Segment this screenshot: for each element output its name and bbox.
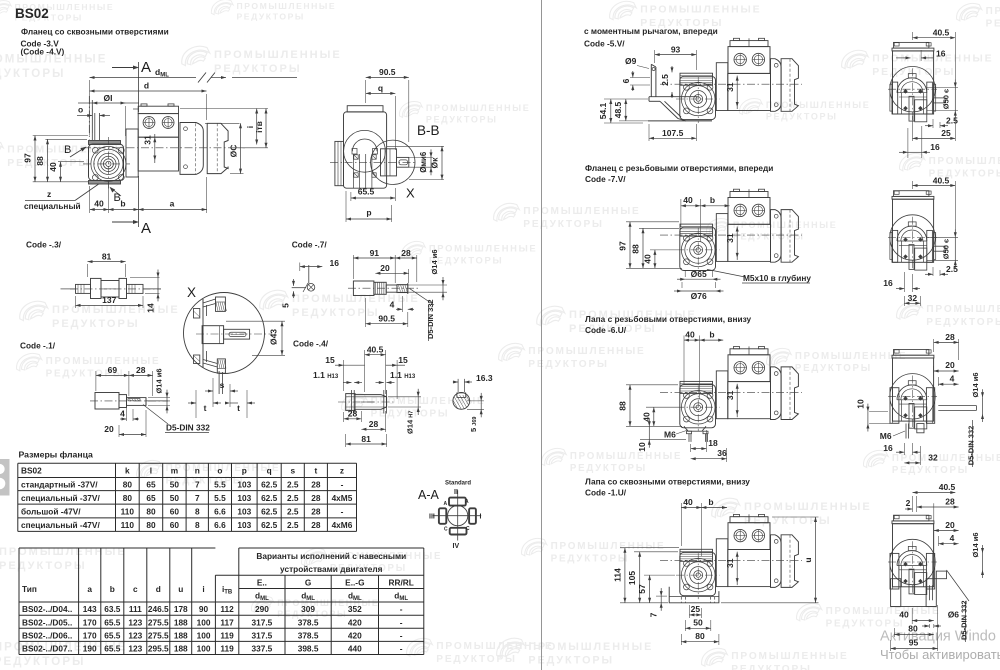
dim 28 upper	[343, 412, 345, 422]
gearbox adapter	[716, 539, 728, 587]
svg-text:ПРОМЫШЛЕННЫЕ: ПРОМЫШЛЕННЫЕ	[744, 501, 872, 513]
svg-text:ПРОМЫШЛЕННЫЕ: ПРОМЫШЛЕННЫЕ	[570, 451, 682, 462]
svg-text:97: 97	[23, 153, 33, 163]
output shaft down	[917, 424, 924, 433]
gearbox ribs	[680, 381, 713, 393]
centerline	[660, 559, 802, 561]
left edge tab B	[0, 459, 10, 496]
svg-text:5.5: 5.5	[214, 493, 226, 503]
section bolts	[903, 562, 908, 567]
svg-text:(Code -4.V): (Code -4.V)	[21, 47, 65, 57]
dim 28	[416, 255, 418, 282]
svg-text:28: 28	[348, 409, 358, 419]
svg-text:20: 20	[104, 424, 114, 434]
gearbox ribs	[680, 73, 713, 85]
end view Code -6.U	[888, 350, 937, 430]
svg-text:ПРОМЫШЛЕННЫЕ: ПРОМЫШЛЕННЫЕ	[277, 598, 379, 608]
svg-text:ПРОМЫШЛЕННЫЕ: ПРОМЫШЛЕННЫЕ	[733, 220, 838, 230]
svg-text:10: 10	[855, 399, 865, 409]
main drawing Code -3.V: worm gearbox with motor, side view	[23, 59, 298, 237]
dims 97 88 40	[33, 135, 88, 137]
svg-text:E..: E..	[257, 577, 267, 587]
svg-text:105: 105	[627, 571, 637, 585]
svg-text:Ø50 є: Ø50 є	[942, 89, 951, 109]
dim 28 lower	[385, 411, 387, 432]
svg-text:РЕДУКТОРЫ: РЕДУКТОРЫ	[926, 317, 1000, 328]
dim 10 left	[869, 423, 890, 425]
svg-text:РЕДУКТОРЫ: РЕДУКТОРЫ	[0, 656, 86, 668]
svg-text:40: 40	[899, 610, 909, 620]
svg-text:40: 40	[94, 199, 104, 209]
svg-text:II: II	[454, 489, 458, 496]
svg-text:65.5: 65.5	[104, 617, 121, 627]
svg-text:69: 69	[108, 365, 118, 375]
svg-text:ØI: ØI	[104, 93, 113, 103]
svg-text:178: 178	[174, 604, 188, 614]
svg-text:A: A	[141, 220, 151, 237]
svg-text:4xM6: 4xM6	[332, 520, 353, 530]
svg-text:20: 20	[380, 263, 390, 273]
motor end shield	[771, 210, 782, 263]
svg-text:Ø50 є: Ø50 є	[942, 239, 951, 259]
drawing Code -.7: shaft end with retaining washer	[281, 248, 448, 341]
svg-text:o: o	[78, 105, 83, 115]
svg-text:s: s	[220, 380, 225, 390]
dim 28 top	[933, 339, 935, 352]
svg-text:M6: M6	[880, 431, 892, 441]
shaft key stub right	[934, 98, 946, 103]
motor body	[126, 129, 138, 177]
svg-text:РЕДУКТОРЫ: РЕДУКТОРЫ	[733, 232, 805, 242]
svg-text:28: 28	[945, 497, 955, 507]
detail X: output flange cross-section	[184, 285, 286, 418]
svg-text:RR/RL: RR/RL	[388, 577, 413, 587]
svg-text:112: 112	[220, 604, 234, 614]
svg-text:p: p	[242, 466, 247, 476]
svg-text:ПРОМЫШЛЕННЫЕ: ПРОМЫШЛЕННЫЕ	[166, 463, 281, 474]
motor end shield	[771, 367, 782, 420]
end view: terminal box	[894, 515, 929, 521]
dim 54.1	[604, 98, 648, 100]
end view Code -1.U	[888, 515, 947, 595]
svg-text:90.5: 90.5	[378, 314, 395, 324]
svg-text:60: 60	[170, 520, 180, 530]
fan cowl	[781, 59, 798, 112]
svg-text:ПРОМЫШЛЕННЫЕ: ПРОМЫШЛЕННЫЕ	[292, 293, 420, 305]
svg-text:16: 16	[930, 142, 940, 152]
svg-text:C: C	[444, 527, 448, 533]
dim 2.5	[932, 267, 934, 276]
svg-text:275.5: 275.5	[148, 631, 169, 641]
svg-text:352: 352	[348, 604, 362, 614]
end view Code -5.V	[888, 42, 945, 122]
dim 40.5	[912, 32, 914, 40]
output flange and shaft	[381, 149, 397, 176]
svg-text:25: 25	[691, 604, 701, 614]
dims 40 b a	[89, 186, 91, 213]
gearbox housing front	[680, 76, 716, 119]
svg-text:40.5: 40.5	[933, 28, 950, 38]
svg-text:40: 40	[642, 254, 652, 264]
dim 16	[903, 272, 905, 292]
shaft key stub right	[934, 246, 946, 251]
svg-text:специальный -37V/: специальный -37V/	[21, 493, 100, 503]
svg-text:b: b	[709, 330, 714, 340]
svg-text:103: 103	[237, 493, 251, 503]
svg-text:РЕДУКТОРЫ: РЕДУКТОРЫ	[292, 307, 380, 319]
motor body	[728, 382, 771, 419]
svg-text:80: 80	[123, 493, 133, 503]
svg-text:c: c	[133, 584, 138, 594]
svg-text:BS02-../D07..: BS02-../D07..	[22, 644, 72, 654]
svg-text:BS02: BS02	[15, 6, 49, 21]
svg-text:ПРОМЫШЛЕННЫЕ: ПРОМЫШЛЕННЫЕ	[640, 5, 761, 16]
dim 16.3	[453, 381, 458, 383]
svg-text:ПРОМЫШЛЕННЫЕ: ПРОМЫШЛЕННЫЕ	[929, 156, 1000, 167]
dims Ø m i6 and Øk	[409, 156, 433, 158]
svg-text:317.5: 317.5	[252, 631, 273, 641]
svg-text:190: 190	[83, 644, 97, 654]
svg-text:2.5: 2.5	[946, 116, 958, 126]
dim 10	[640, 439, 686, 441]
svg-text:t: t	[314, 466, 317, 476]
motor silhouette	[893, 358, 934, 421]
svg-text:-: -	[400, 604, 403, 614]
svg-text:25: 25	[941, 128, 951, 138]
motor silhouette	[893, 524, 934, 587]
svg-text:275.5: 275.5	[148, 617, 169, 627]
dim o	[77, 115, 92, 117]
dim 16	[920, 50, 922, 61]
svg-text:8: 8	[195, 506, 200, 516]
dim Ø14 и6	[148, 397, 170, 399]
dim 16	[903, 443, 905, 455]
svg-text:2.5: 2.5	[287, 480, 299, 490]
svg-text:40: 40	[683, 195, 693, 205]
svg-text:32: 32	[908, 293, 918, 303]
svg-text:Ø14 и6: Ø14 и6	[155, 368, 164, 393]
svg-text:80: 80	[146, 506, 156, 516]
svg-text:ПРОМЫШЛЕННЫЕ: ПРОМЫШЛЕННЫЕ	[429, 244, 537, 254]
svg-text:31: 31	[143, 135, 153, 145]
gearbox adapter	[716, 214, 728, 262]
motor terminal box	[730, 349, 768, 355]
svg-text:m: m	[171, 466, 178, 476]
svg-text:62.5: 62.5	[261, 520, 278, 530]
svg-text:137: 137	[102, 295, 116, 305]
svg-text:Øми6: Øми6	[419, 151, 428, 173]
svg-text:РЕДУКТОРЫ: РЕДУКТОРЫ	[523, 219, 604, 230]
svg-text:114: 114	[612, 568, 622, 582]
svg-text:15: 15	[325, 355, 335, 365]
label D5-DIN 332	[143, 405, 168, 425]
svg-text:M5x10 в глубину: M5x10 в глубину	[743, 273, 811, 283]
motor body	[728, 73, 771, 110]
svg-text:65.5: 65.5	[104, 631, 121, 641]
svg-text:88: 88	[618, 401, 628, 411]
svg-text:188: 188	[174, 644, 188, 654]
svg-text:40: 40	[641, 412, 651, 422]
svg-text:28: 28	[136, 365, 146, 375]
drawing Code -.3: double output shaft	[61, 251, 162, 312]
svg-text:ПРОМЫШЛЕННЫЕ: ПРОМЫШЛЕННЫЕ	[528, 346, 645, 357]
svg-text:Code -6.U/: Code -6.U/	[585, 325, 627, 335]
svg-text:E..-G: E..-G	[345, 577, 364, 587]
centre details	[901, 93, 903, 114]
svg-text:b: b	[710, 195, 715, 205]
svg-text:6.6: 6.6	[214, 506, 226, 516]
dim 107.5	[648, 124, 650, 141]
gearbox housing front	[680, 552, 716, 595]
dim 40.5	[364, 350, 366, 392]
drawing Code -1.U: foot with through holes, side view	[660, 514, 802, 599]
svg-text:РЕДУКТОРЫ: РЕДУКТОРЫ	[766, 112, 838, 122]
drawing Code -.4: hollow shaft sleeve	[313, 345, 493, 448]
svg-text:317.5: 317.5	[252, 617, 273, 627]
shaft lines below balloon	[218, 371, 220, 394]
svg-text:188: 188	[174, 617, 188, 627]
svg-text:100: 100	[197, 617, 211, 627]
motor terminal box	[138, 106, 178, 113]
svg-text:91: 91	[370, 248, 380, 258]
svg-text:РЕДУКТОРЫ: РЕДУКТОРЫ	[214, 63, 302, 75]
dim 7	[656, 595, 667, 597]
svg-text:117: 117	[220, 617, 234, 627]
svg-text:88: 88	[631, 244, 641, 254]
svg-text:110: 110	[121, 506, 135, 516]
label D5-DIN 332	[410, 289, 434, 305]
table 1: flange dimensions	[18, 463, 357, 531]
svg-text:62.5: 62.5	[261, 480, 278, 490]
foot plate	[669, 587, 719, 603]
centre details	[901, 566, 903, 587]
dims 40 b	[680, 199, 682, 227]
top flange rim (hatched)	[216, 297, 226, 311]
svg-text:93: 93	[671, 44, 681, 54]
svg-text:d: d	[144, 81, 149, 91]
svg-text:РЕДУКТОРЫ: РЕДУКТОРЫ	[551, 554, 630, 565]
svg-text:b: b	[708, 497, 713, 507]
dim 31	[154, 134, 156, 163]
centerline	[660, 234, 802, 236]
svg-text:BS02: BS02	[21, 466, 42, 476]
svg-text:309: 309	[301, 604, 315, 614]
drawing Code -.1: single output shaft	[90, 365, 210, 437]
svg-text:57: 57	[637, 584, 647, 594]
dim 40.5	[912, 181, 914, 189]
dim 14	[130, 277, 160, 279]
svg-text:110: 110	[121, 520, 135, 530]
torque arm	[650, 64, 652, 96]
feet with M6 studs	[684, 426, 706, 431]
label D5-DIN 332	[972, 420, 974, 467]
svg-text:4: 4	[950, 533, 955, 543]
svg-text:BS02-../D06..: BS02-../D06..	[22, 631, 72, 641]
svg-text:28: 28	[311, 520, 321, 530]
svg-text:119: 119	[220, 631, 234, 641]
svg-text:62.5: 62.5	[261, 506, 278, 516]
mounting flange plates	[335, 141, 344, 185]
gearbox housing front	[680, 385, 716, 428]
svg-text:6: 6	[621, 78, 631, 83]
svg-text:123: 123	[128, 617, 142, 627]
svg-text:X: X	[187, 285, 196, 300]
svg-text:специальный -47V/: специальный -47V/	[21, 520, 100, 530]
dim 20	[408, 269, 410, 283]
fan cowl	[781, 367, 798, 420]
svg-text:специальный: специальный	[24, 201, 81, 211]
bottom flange rim (hatched)	[217, 359, 225, 373]
svg-text:РЕДУКТОРЫ: РЕДУКТОРЫ	[528, 359, 609, 370]
gearbox section	[352, 139, 377, 151]
svg-text:M6: M6	[664, 429, 676, 439]
svg-text:k: k	[125, 466, 130, 476]
dims 88 40 left	[626, 384, 678, 386]
dim ØC	[205, 122, 240, 124]
input shaft stub	[88, 96, 90, 140]
svg-text:ПРОМЫШЛЕННЫЕ: ПРОМЫШЛЕННЫЕ	[551, 541, 666, 552]
side flange plates	[892, 230, 898, 262]
drawing Code -5.V: gearbox with torque arm, side view	[660, 38, 802, 123]
dims 40 b	[683, 336, 685, 385]
svg-text:n: n	[195, 466, 200, 476]
gearbox front: worm bore arc	[897, 551, 927, 566]
svg-text:Ø14 и6: Ø14 и6	[971, 372, 980, 397]
svg-text:Øк: Øк	[430, 157, 440, 169]
fan cowl	[781, 210, 798, 263]
dim 90.5	[365, 80, 367, 103]
section bolts	[903, 89, 908, 94]
svg-text:420: 420	[348, 617, 362, 627]
svg-text:G: G	[305, 577, 311, 587]
svg-text:BS02-../D04..: BS02-../D04..	[22, 604, 72, 614]
dim 93	[654, 50, 656, 63]
svg-text:18: 18	[708, 438, 718, 448]
svg-text:ПРОМЫШЛЕННЫЕ: ПРОМЫШЛЕННЫЕ	[872, 54, 993, 65]
svg-text:Ø14 и6: Ø14 и6	[430, 249, 439, 274]
svg-text:28: 28	[311, 493, 321, 503]
svg-text:РЕДУКТОРЫ: РЕДУКТОРЫ	[731, 664, 812, 670]
svg-text:t: t	[237, 403, 240, 413]
svg-text:Code -5.V/: Code -5.V/	[584, 39, 625, 49]
lower feet	[891, 579, 901, 607]
dim 4	[938, 536, 940, 546]
dim 31	[728, 551, 741, 553]
svg-text:ПРОМЫШЛЕННЫЕ: ПРОМЫШЛЕННЫЕ	[731, 651, 848, 662]
svg-text:107.5: 107.5	[662, 128, 684, 138]
svg-text:u: u	[178, 584, 183, 594]
svg-text:80: 80	[695, 631, 705, 641]
svg-text:378.5: 378.5	[298, 617, 319, 627]
svg-text:ПРОМЫШЛЕННЫЕ: ПРОМЫШЛЕННЫЕ	[52, 304, 180, 316]
dim Ø14 и6	[398, 284, 447, 286]
dim 28	[152, 371, 154, 396]
svg-text:Варианты исполнений с навесным: Варианты исполнений с навесными	[256, 551, 406, 561]
svg-text:103: 103	[237, 520, 251, 530]
gearbox front: worm bore arc	[897, 226, 927, 241]
svg-text:65: 65	[146, 493, 156, 503]
svg-text:Ø9: Ø9	[625, 56, 637, 66]
dim Ø50e	[927, 236, 958, 238]
svg-text:z: z	[340, 466, 344, 476]
svg-text:103: 103	[237, 506, 251, 516]
dim 5 J69	[467, 400, 484, 402]
dim 20	[934, 530, 959, 532]
svg-text:14: 14	[146, 303, 156, 313]
dim 80	[893, 628, 895, 637]
svg-text:q: q	[378, 83, 383, 93]
svg-text:РЕДУКТОРЫ: РЕДУКТОРЫ	[0, 560, 87, 572]
motor terminal box	[730, 192, 768, 198]
svg-text:РЕДУКТОРЫ: РЕДУКТОРЫ	[892, 465, 969, 476]
section line A	[138, 62, 140, 112]
dim 31	[728, 383, 741, 385]
svg-text:Ø6: Ø6	[948, 610, 960, 620]
svg-text:q: q	[267, 466, 272, 476]
svg-text:РЕДУКТОРЫ: РЕДУКТОРЫ	[429, 255, 503, 265]
section bolts	[903, 237, 908, 242]
svg-text:t: t	[204, 403, 207, 413]
dim 25	[912, 116, 914, 141]
svg-text:iтв: iтв	[254, 121, 264, 133]
svg-text:D5-DIN 332: D5-DIN 332	[960, 600, 969, 640]
svg-text:111: 111	[129, 604, 142, 614]
gearbox housing front face	[89, 141, 121, 145]
svg-text:378.5: 378.5	[298, 631, 319, 641]
centerline	[660, 83, 802, 85]
dim 20	[145, 410, 147, 437]
svg-text:a: a	[87, 584, 92, 594]
svg-text:40: 40	[685, 330, 695, 340]
svg-text:-: -	[341, 506, 344, 516]
svg-text:31: 31	[725, 233, 735, 243]
gearbox adapter	[716, 63, 728, 111]
gearbox front: worm bore arc	[897, 385, 927, 400]
svg-text:188: 188	[174, 631, 188, 641]
svg-text:Code -.7/: Code -.7/	[292, 239, 328, 249]
svg-text:i: i	[202, 584, 204, 594]
dim d	[206, 94, 208, 120]
svg-text:290: 290	[255, 604, 269, 614]
svg-text:80: 80	[146, 520, 156, 530]
svg-text:Code -1.U/: Code -1.U/	[585, 488, 627, 498]
svg-text:20: 20	[945, 520, 955, 530]
end view: terminal box	[894, 191, 929, 197]
dim 137	[75, 296, 77, 308]
svg-text:A: A	[141, 59, 151, 76]
svg-text:ПРОМЫШЛЕННЫЕ: ПРОМЫШЛЕННЫЕ	[795, 351, 907, 362]
svg-text:7: 7	[195, 480, 200, 490]
dim 16 (left)	[300, 266, 323, 268]
svg-text:-: -	[400, 631, 403, 641]
svg-text:стандартный -37V/: стандартный -37V/	[21, 480, 98, 490]
motor body	[728, 550, 771, 587]
svg-text:IV: IV	[453, 543, 460, 550]
svg-text:4: 4	[120, 409, 125, 419]
svg-text:440: 440	[348, 644, 362, 654]
svg-text:ПРОМЫШЛЕННЫЕ: ПРОМЫШЛЕННЫЕ	[237, 1, 337, 11]
svg-text:97: 97	[618, 241, 628, 251]
svg-text:ПРОМЫШЛЕННЫЕ: ПРОМЫШЛЕННЫЕ	[528, 641, 653, 653]
foot wings	[890, 553, 899, 589]
dim 16 bottom	[907, 128, 909, 158]
svg-text:2.5: 2.5	[287, 493, 299, 503]
svg-text:65.5: 65.5	[358, 187, 375, 197]
dim 4	[937, 377, 939, 386]
svg-text:119: 119	[220, 644, 234, 654]
svg-text:295.5: 295.5	[148, 644, 169, 654]
svg-text:Code -.1/: Code -.1/	[20, 341, 56, 351]
